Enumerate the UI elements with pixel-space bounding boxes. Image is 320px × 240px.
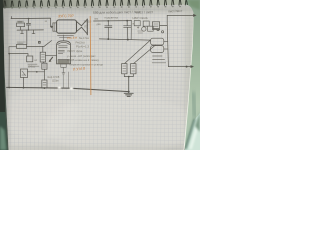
- node dot bus-left: [8, 87, 10, 89]
- node dot rail1-a: [107, 20, 109, 22]
- resistor R5: [122, 64, 127, 74]
- wire rail-3: [99, 39, 150, 40]
- svg-text:599 для небольших лист / лист: 599 для небольших лист / лист: [93, 10, 141, 15]
- label text smudge: [28, 64, 39, 66]
- wire top-left vertical stub: [11, 17, 13, 19]
- svg-text:березн горизонт статор: березн горизонт статор: [70, 63, 104, 67]
- wire B2 down: [43, 69, 45, 72]
- label ~230 250V: [152, 56, 166, 63]
- node dot bus-meet: [128, 91, 130, 93]
- spiral coil holes: [4, 6, 181, 9]
- component B2 box: [42, 63, 47, 69]
- svg-text:стз 4-п: стз 4-п: [67, 36, 78, 41]
- CRT V1 funnel: [77, 20, 88, 34]
- node dot feed: [186, 66, 188, 68]
- wire into tube left: [45, 54, 56, 56]
- wire rail y53.5: [9, 53, 28, 55]
- wire cluster link: [153, 28, 156, 30]
- marks K2: [22, 71, 26, 76]
- wire fuses to vertical: [164, 42, 168, 49]
- value marks R3: [42, 55, 45, 60]
- resistor R2: [17, 44, 27, 48]
- capacitor C1: [26, 19, 30, 30]
- orange pencil: [58, 14, 91, 95]
- svg-text:подсветка: подсветка: [105, 16, 119, 20]
- transformer T1 circle: [142, 27, 146, 31]
- capacitor C2: [105, 21, 112, 39]
- svg-text:ол: ол: [34, 59, 37, 62]
- node dot rail3-a: [107, 38, 109, 40]
- spiral coils: [4, 0, 181, 7]
- tube V2 heater marks: [58, 46, 67, 54]
- wire K2 to bus: [23, 78, 25, 88]
- svg-text:лист/лист: лист/лист: [168, 9, 183, 14]
- CRT V1 body: [57, 20, 77, 33]
- value label R1: [17, 20, 24, 23]
- svg-text:ЛЕСУ фра.: ЛЕСУ фра.: [67, 49, 83, 53]
- wire tube top to CRT: [62, 35, 64, 40]
- background table / cover: [0, 0, 200, 13]
- component X2 box: [148, 26, 154, 31]
- wire long left drop to bus: [8, 54, 10, 88]
- resistor R6: [131, 64, 136, 74]
- value marks R4: [43, 82, 46, 85]
- wire rail-1 right section: [94, 20, 132, 22]
- CRT V1 socket: [53, 23, 57, 31]
- extra coil: [185, 0, 187, 5]
- svg-text:ЛУ: ЛУ: [84, 25, 88, 29]
- wire R2 left stub: [9, 47, 17, 54]
- label +НВУ: [137, 27, 143, 34]
- wire right vertical main: [167, 22, 168, 66]
- wire top rail left: [11, 17, 51, 19]
- component K2 box: [21, 69, 28, 78]
- wire bottom-right feed: [168, 66, 191, 68]
- terminal circles: [157, 29, 159, 31]
- svg-text:Общ: Общ: [28, 64, 35, 68]
- value marks R5: [123, 66, 126, 71]
- notebook page: [3, 5, 193, 150]
- wire drop x68: [67, 72, 69, 88]
- ground bus wire: [7, 87, 129, 91]
- tube V2 pin stem: [61, 64, 66, 74]
- node dot rail1-b: [126, 20, 128, 22]
- fuse F2: [151, 46, 164, 53]
- node junction on top rail: [28, 18, 30, 20]
- node dot join: [128, 76, 130, 78]
- wire diagonal pair to R5/R6: [125, 40, 156, 63]
- white highlight blobs on bus: [58, 87, 61, 89]
- wire diagonal up to CRT: [44, 41, 51, 47]
- value marks R6: [132, 66, 135, 71]
- wire drop from feed: [166, 15, 168, 22]
- orange margin line: [89, 16, 92, 95]
- wire X3 to vertical: [160, 25, 168, 27]
- wire tube bottom to bus: [63, 75, 65, 88]
- wire stub R1 bottom: [20, 27, 22, 30]
- svg-text:лир: лир: [94, 18, 99, 21]
- wire down to ground: [128, 77, 130, 93]
- node dot bus-K2: [23, 87, 25, 89]
- svg-text:лист / лист: лист / лист: [136, 10, 154, 14]
- ground: [124, 93, 133, 96]
- marks B2: [43, 65, 46, 67]
- tube V2 base hatch: [58, 60, 70, 64]
- wire drop x22: [21, 30, 24, 34]
- capacitor C3: [124, 21, 131, 40]
- node dot bus-R4: [44, 87, 46, 89]
- wire R2 right to diagonal: [27, 45, 45, 47]
- node dot rail3-b: [127, 39, 129, 41]
- value label R2: [17, 42, 26, 43]
- wire rail y30: [17, 29, 44, 31]
- wire rail71 down to R4: [43, 72, 45, 80]
- wire rail y71.8: [28, 71, 45, 73]
- resistor R1: [17, 23, 25, 27]
- fuse F1: [151, 38, 164, 45]
- component K1 small box: [27, 56, 33, 62]
- node dot C1-rail: [28, 29, 30, 31]
- svg-text:НБР СЕНЬ: НБР СЕНЬ: [133, 16, 148, 20]
- component cluster X1 boxes: [134, 21, 140, 26]
- page shading: [0, 5, 200, 12]
- tube V2 envelope: [57, 41, 71, 64]
- wire top-right feed: [167, 14, 193, 16]
- arrow mark wiper: [50, 57, 53, 61]
- resistor R4: [42, 80, 47, 88]
- wire R3 top: [42, 46, 44, 52]
- svg-text:4sф 0,5/8: 4sф 0,5/8: [47, 75, 60, 79]
- marks X3: [154, 24, 158, 26]
- page edge highlight: [184, 14, 193, 150]
- svg-text:Р(с4)=1,3: Р(с4)=1,3: [76, 45, 89, 49]
- wire drop x33.5: [32, 30, 35, 34]
- wire stub K1 top: [27, 54, 29, 56]
- CRT V1 screen: [86, 19, 88, 35]
- wire down to CRT input: [50, 18, 52, 27]
- svg-text:(15)м: (15)м: [52, 79, 59, 83]
- node dot A: [8, 53, 10, 55]
- wire join under R5 R6: [124, 74, 133, 77]
- svg-text:ЗУГС 70?: ЗУГС 70?: [58, 14, 74, 18]
- svg-text:у-лезв -АЛ (аппарат: у-лезв -АЛ (аппарат: [67, 54, 96, 58]
- resistor R3: [40, 52, 45, 62]
- label under CRT: [58, 35, 74, 37]
- node small part: [39, 41, 41, 43]
- node dot rail71: [36, 71, 38, 73]
- component X3 box: [152, 22, 159, 30]
- wire arrow into CRT socket: [51, 26, 52, 28]
- wire right vertical x131.5: [130, 21, 132, 40]
- wire drop to R2: [26, 30, 28, 45]
- wire R3 bottom: [42, 62, 44, 63]
- handwritten text smudges (dark): [28, 9, 183, 83]
